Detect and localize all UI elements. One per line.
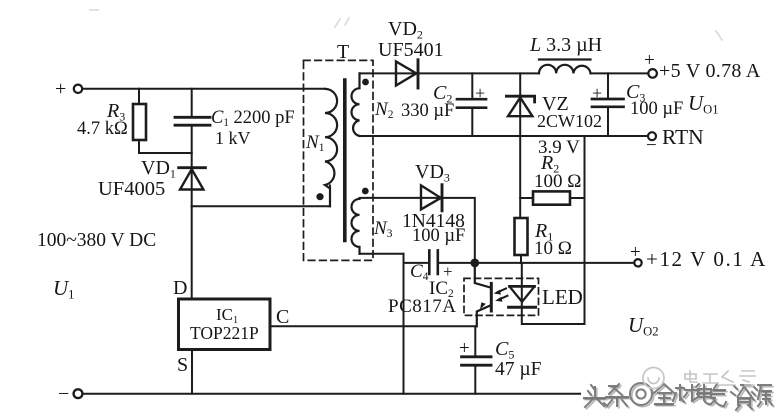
IC U1 TOP221P box <box>179 299 271 350</box>
label UO2 output voltage <box>628 315 659 338</box>
label C2 refdes <box>433 83 452 104</box>
label C4 polarity <box>443 263 453 280</box>
label + input positive <box>55 79 66 99</box>
terminal +5V output <box>648 69 657 78</box>
label VZ value 2CW102 <box>537 112 602 130</box>
label RTN polarity <box>646 136 657 155</box>
wire VD2 to inductor <box>418 72 539 74</box>
label winding N1 <box>306 133 324 155</box>
label +5V output rating <box>659 61 761 81</box>
faint artifact marks <box>90 10 722 40</box>
wire C pin line <box>270 325 475 327</box>
label R3 refdes <box>107 101 125 122</box>
resistor R2 <box>520 191 584 204</box>
label C2 value 330 uF <box>401 102 454 121</box>
label C4 value 100 uF <box>412 227 465 246</box>
label R1 refdes <box>535 221 553 242</box>
wire N3 to VD3 <box>360 197 443 199</box>
label C3 refdes <box>626 82 645 103</box>
winding N3 <box>352 199 360 254</box>
label IC2 refdes <box>429 279 454 301</box>
wire N2 to VD2 <box>360 72 419 74</box>
label VZ voltage 3.9V <box>538 138 580 157</box>
node dot N3 <box>362 188 369 195</box>
label UO1 output voltage <box>688 93 719 116</box>
wire VD3 to junction <box>442 198 475 263</box>
label VD2 refdes <box>388 19 423 40</box>
label RTN terminal <box>662 127 704 149</box>
terminal - input negative <box>74 389 83 398</box>
diode VD2 <box>396 60 418 88</box>
phototransistor of IC2 <box>475 263 492 326</box>
label - input negative <box>58 384 69 404</box>
label R2 value 100 Ohm <box>534 172 581 191</box>
transformer core <box>343 80 347 241</box>
LED of IC2 <box>509 263 536 324</box>
capacitor C4 <box>429 250 438 274</box>
label VD3 refdes <box>415 162 450 183</box>
terminal RTN output <box>648 132 656 140</box>
label +12V output rating <box>646 249 767 270</box>
label +5V terminal polarity <box>644 51 655 70</box>
label IC1 value TOP221P <box>190 325 259 343</box>
zener diode VZ <box>506 73 534 218</box>
terminal + input positive <box>74 85 82 93</box>
watermark toutiao text outline <box>584 383 772 410</box>
node dot N1 <box>316 193 323 200</box>
label C4 refdes <box>410 262 428 284</box>
wire RTN return rail <box>360 135 649 137</box>
transformer T dashed box <box>304 60 374 260</box>
wire D column <box>191 206 193 299</box>
node dot N2 <box>362 79 369 86</box>
light arrows into phototransistor <box>494 289 508 302</box>
wire +12V rail <box>404 262 635 264</box>
capacitor C1 <box>175 89 210 167</box>
wire N3 bottom to feedback column <box>360 253 404 255</box>
watermark dianGongZhiJia text <box>685 371 755 385</box>
label transformer T <box>337 42 349 62</box>
resistor R1 <box>515 218 528 263</box>
label U1 input voltage <box>53 278 74 301</box>
wire S pin to bottom rail <box>191 350 193 394</box>
label pin D <box>173 278 187 298</box>
label winding N3 <box>374 219 392 241</box>
label winding N2 <box>375 100 393 122</box>
terminal +12V output <box>634 259 641 266</box>
capacitor C5 <box>462 357 491 394</box>
watermark dianGong logo circle <box>643 368 664 389</box>
wire VD1 to N1 bottom <box>192 186 330 207</box>
optocoupler IC2 dashed box <box>464 278 539 315</box>
label VD1 refdes <box>141 158 176 179</box>
capacitor C2 <box>457 73 486 135</box>
label inductor L value <box>530 35 602 55</box>
resistor R3 <box>133 89 146 153</box>
capacitor C3 <box>592 73 624 136</box>
label VZ refdes <box>542 94 569 114</box>
label C5 polarity <box>459 339 470 358</box>
wire R3 bottom to C1/VD1 column <box>139 152 192 154</box>
wire top rail primary <box>83 88 326 90</box>
label LED <box>542 287 583 308</box>
label C1 refdes and value <box>211 109 295 129</box>
watermark toutiao text shadow accents <box>584 391 771 405</box>
label C5 refdes <box>495 339 514 360</box>
label R2 refdes <box>541 153 559 174</box>
wire LED cathode loop <box>522 323 585 325</box>
wire feedback column <box>403 254 405 394</box>
label pin S <box>177 355 188 375</box>
label pin C <box>276 307 289 327</box>
label input voltage range <box>37 231 156 251</box>
label C3 polarity <box>592 84 602 102</box>
label VD3 value 1N4148 <box>402 212 465 232</box>
label IC1 refdes <box>216 306 238 326</box>
label R3 value 4.7 kOhm <box>77 120 128 139</box>
watermark toutiao text shadow layer <box>586 385 774 412</box>
label C3 value 100 uF <box>630 100 683 119</box>
node junction C4/opto <box>470 259 479 268</box>
winding N1 <box>325 89 337 207</box>
wire inductor to +5V terminal <box>591 72 649 74</box>
wire emitter to C5 <box>474 326 476 355</box>
label C5 value 47 uF <box>495 360 541 380</box>
winding N2 <box>352 73 360 136</box>
label C2 polarity <box>475 84 485 102</box>
label VD1 value UF4005 <box>98 179 165 200</box>
label C1 rating 1 kV <box>215 129 251 147</box>
label IC2 value PC817A <box>388 297 456 316</box>
inductor L <box>539 60 591 74</box>
wire bottom rail <box>83 393 581 395</box>
diode VD3 <box>421 185 442 211</box>
label R1 value 10 Ohm <box>534 239 572 258</box>
label VD2 value UF5401 <box>378 40 444 60</box>
diode VD1 <box>179 168 206 207</box>
wire right column RTN to LED loop <box>584 136 586 324</box>
label +12V terminal polarity <box>630 243 641 262</box>
